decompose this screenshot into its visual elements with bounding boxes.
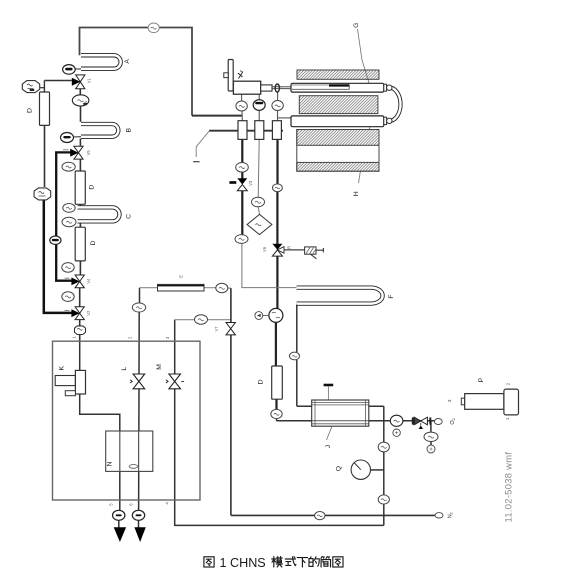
svg-text:M: M (156, 364, 163, 370)
svg-text:11.02-5038 wmf: 11.02-5038 wmf (503, 452, 514, 523)
svg-text:J: J (325, 445, 332, 448)
svg-text:V2: V2 (86, 310, 91, 316)
svg-text:R: R (287, 246, 292, 249)
svg-text:P: P (478, 377, 485, 382)
svg-text:V6: V6 (262, 246, 267, 252)
svg-text:3: 3 (447, 399, 452, 402)
svg-text:N: N (107, 461, 114, 466)
svg-text:2: 2 (505, 382, 510, 385)
svg-text:D: D (90, 240, 97, 245)
svg-text:D: D (88, 185, 95, 190)
svg-text:F: F (388, 295, 395, 299)
svg-text:V3: V3 (248, 180, 253, 186)
svg-text:V7: V7 (214, 326, 219, 332)
svg-text:C: C (125, 214, 132, 219)
svg-text:V4: V4 (86, 278, 91, 284)
svg-text:E: E (179, 275, 184, 278)
svg-text:D: D (258, 379, 265, 384)
svg-text:V1: V1 (87, 78, 92, 84)
svg-text:Q: Q (335, 466, 342, 471)
svg-text:1: 1 (505, 417, 510, 420)
svg-text:B: B (125, 127, 132, 132)
svg-text:H: H (353, 191, 360, 196)
svg-text:1 CHNS: 1 CHNS (220, 556, 266, 570)
svg-text:D: D (26, 108, 33, 113)
svg-text:K: K (58, 365, 65, 370)
svg-text:G: G (353, 23, 360, 28)
svg-text:L: L (121, 367, 128, 371)
svg-text:A: A (124, 59, 131, 64)
svg-text:V5: V5 (86, 150, 91, 156)
